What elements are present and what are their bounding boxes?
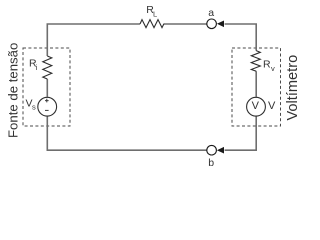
svg-text:Voltímetro: Voltímetro [285,55,301,121]
svg-text:Fonte de tensão: Fonte de tensão [6,43,21,138]
svg-text:v: v [271,64,275,73]
svg-text:V: V [268,100,276,112]
svg-text:V: V [252,100,260,112]
svg-text:L: L [153,9,157,18]
svg-text:s: s [32,102,36,111]
svg-text:b: b [208,157,214,169]
svg-text:i: i [36,63,38,72]
svg-text:R: R [263,59,271,71]
svg-text:a: a [208,7,214,19]
